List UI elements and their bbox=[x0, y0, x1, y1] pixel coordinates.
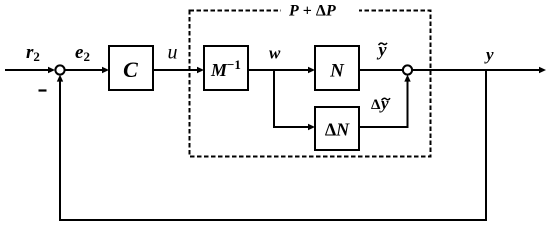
summing junction S2 bbox=[403, 65, 412, 74]
block M inverse bbox=[204, 46, 248, 90]
svg-text:r2: r2 bbox=[26, 42, 40, 64]
wire output y bbox=[412, 67, 546, 73]
wire w bbox=[248, 67, 315, 73]
svg-text:e2: e2 bbox=[75, 42, 90, 64]
label u bbox=[168, 42, 178, 64]
node w branch bbox=[274, 70, 315, 130]
svg-text:ΔN: ΔN bbox=[325, 120, 350, 140]
label w bbox=[269, 44, 281, 63]
label P + dP bbox=[288, 3, 336, 20]
label e2 bbox=[75, 42, 90, 64]
summing junction S1 bbox=[55, 65, 64, 74]
svg-text:N: N bbox=[329, 61, 345, 82]
label r2 bbox=[26, 42, 40, 64]
label minus bbox=[39, 89, 47, 91]
label y bbox=[484, 45, 494, 64]
wire input r2 bbox=[5, 67, 55, 73]
block N bbox=[315, 46, 359, 90]
svg-text:u: u bbox=[168, 42, 178, 64]
block C bbox=[109, 46, 153, 90]
wire Delta y tilde bbox=[359, 75, 411, 127]
svg-text:y: y bbox=[379, 94, 389, 113]
svg-text:w: w bbox=[269, 44, 281, 63]
svg-text:y: y bbox=[484, 45, 494, 64]
svg-text:P + ΔP: P + ΔP bbox=[288, 3, 336, 20]
svg-text:C: C bbox=[123, 57, 138, 82]
wire feedback bbox=[57, 70, 486, 220]
svg-text:Δ: Δ bbox=[371, 97, 381, 113]
dashed box P+dP bbox=[190, 2, 431, 157]
label Delta y tilde bbox=[371, 94, 390, 113]
block Delta N bbox=[315, 107, 359, 150]
wire u bbox=[153, 67, 204, 73]
wire y tilde bbox=[359, 69, 403, 71]
wire e2 bbox=[65, 67, 109, 73]
label y tilde bbox=[377, 40, 388, 60]
